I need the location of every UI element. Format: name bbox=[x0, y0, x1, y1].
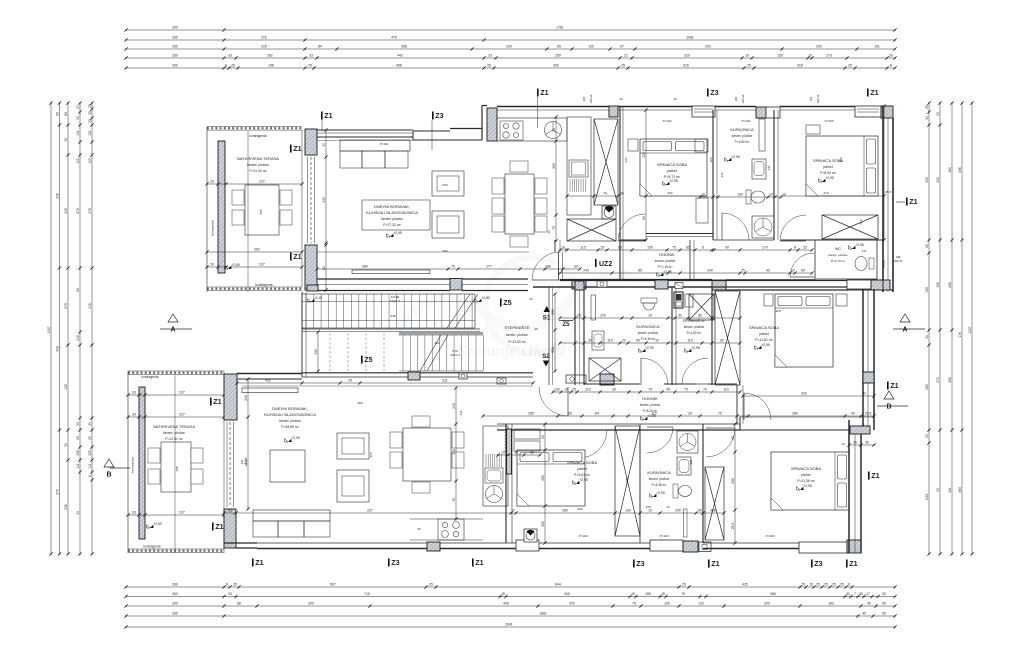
wall segment bbox=[664, 383, 696, 385]
svg-text:Z3: Z3 bbox=[636, 559, 644, 568]
svg-text:20: 20 bbox=[889, 54, 893, 58]
upper terrace right edge thin bbox=[301, 130, 303, 287]
label Z5 stairs top bbox=[500, 299, 502, 307]
cabinet right b1 bbox=[696, 198, 708, 223]
svg-text:keram. pločice: keram. pločice bbox=[163, 431, 185, 435]
label Z1 right side bbox=[906, 198, 908, 206]
svg-text:10: 10 bbox=[655, 339, 659, 343]
svg-text:170: 170 bbox=[762, 246, 768, 250]
pier stair bottom wall bbox=[408, 372, 420, 380]
svg-text:Z5: Z5 bbox=[562, 321, 570, 328]
svg-text:260: 260 bbox=[172, 583, 178, 587]
svg-text:keram. pločice: keram. pločice bbox=[506, 333, 528, 337]
svg-text:+2,95: +2,95 bbox=[669, 179, 678, 183]
svg-text:365: 365 bbox=[770, 592, 776, 596]
svg-text:272: 272 bbox=[936, 377, 940, 383]
svg-text:105: 105 bbox=[647, 246, 653, 250]
wall bath/bedroom2 bbox=[773, 110, 775, 240]
svg-text:300: 300 bbox=[553, 64, 559, 68]
svg-text:50: 50 bbox=[882, 612, 886, 616]
svg-text:SPAVAĆA SOBA: SPAVAĆA SOBA bbox=[657, 162, 687, 167]
svg-text:25: 25 bbox=[88, 436, 92, 440]
svg-text:+2,95: +2,95 bbox=[761, 343, 770, 347]
svg-text:100: 100 bbox=[588, 45, 594, 49]
wall band 450-482 top bbox=[450, 128, 482, 130]
svg-text:240: 240 bbox=[322, 197, 326, 203]
svg-text:318: 318 bbox=[797, 64, 803, 68]
stove 4 burners bbox=[500, 121, 523, 140]
pier top right bedroom4 bbox=[850, 426, 870, 434]
svg-text:45: 45 bbox=[666, 388, 670, 392]
svg-text:36: 36 bbox=[514, 451, 518, 455]
svg-text:10: 10 bbox=[745, 54, 749, 58]
top wall of lower apartment right section bbox=[533, 286, 560, 288]
wall bath/spremiste bbox=[671, 287, 673, 385]
corridor dim rows bbox=[560, 249, 812, 251]
dim row bathroom upper bbox=[700, 196, 781, 198]
nightstand b bbox=[836, 294, 847, 306]
svg-text:+2,95: +2,95 bbox=[691, 346, 700, 350]
svg-text:100: 100 bbox=[936, 282, 940, 288]
svg-text:240: 240 bbox=[240, 459, 244, 464]
upper terrace top contragreda band bbox=[207, 126, 302, 128]
lower plan top wall bbox=[237, 373, 302, 375]
svg-text:Z1: Z1 bbox=[213, 397, 221, 406]
svg-text:WC: WC bbox=[835, 247, 841, 251]
dim row 36 36 bbox=[498, 454, 540, 456]
section marker A left bbox=[168, 314, 178, 322]
vent circle lower kitchen bbox=[486, 486, 503, 503]
right wall upper plan bbox=[882, 106, 884, 292]
top dimension block bbox=[126, 29, 895, 31]
svg-text:70: 70 bbox=[703, 388, 707, 392]
svg-text:82: 82 bbox=[322, 266, 326, 270]
svg-text:25: 25 bbox=[308, 64, 312, 68]
kitchen peninsula crossed box bbox=[567, 219, 616, 241]
pier corridor bottom x572 bbox=[572, 281, 586, 290]
svg-text:P=12,50 m²: P=12,50 m² bbox=[508, 340, 526, 344]
svg-text:295: 295 bbox=[689, 459, 693, 464]
lower plan bottom wall bbox=[224, 542, 257, 544]
svg-text:parket: parket bbox=[823, 165, 832, 169]
watermark logo bbox=[398, 257, 658, 353]
svg-text:358: 358 bbox=[401, 45, 407, 49]
svg-text:100: 100 bbox=[664, 602, 670, 606]
svg-text:+2,95: +2,95 bbox=[731, 155, 740, 159]
section marker B left bbox=[104, 459, 114, 467]
svg-text:10: 10 bbox=[841, 442, 845, 446]
armchairs lower living bbox=[337, 433, 369, 459]
svg-text:260: 260 bbox=[172, 54, 178, 58]
vert dim lower living bbox=[455, 388, 457, 519]
svg-text:260: 260 bbox=[172, 45, 178, 49]
svg-text:177: 177 bbox=[486, 265, 492, 269]
svg-text:Pvv30: Pvv30 bbox=[882, 260, 886, 268]
svg-text:75: 75 bbox=[451, 265, 455, 269]
svg-text:84: 84 bbox=[595, 412, 599, 416]
svg-text:75: 75 bbox=[632, 602, 636, 606]
svg-text:SPAVAĆA SOBA: SPAVAĆA SOBA bbox=[749, 325, 779, 330]
label Z1 top kitchen bbox=[537, 89, 539, 97]
svg-text:40: 40 bbox=[862, 612, 866, 616]
svg-text:198: 198 bbox=[268, 64, 274, 68]
kitchen counter band upper bbox=[497, 118, 567, 141]
label Z1 right lower bbox=[868, 472, 870, 480]
svg-text:295: 295 bbox=[88, 450, 92, 456]
svg-text:25 8: 25 8 bbox=[731, 523, 735, 530]
svg-text:33: 33 bbox=[76, 116, 80, 120]
svg-text:120+20: 120+20 bbox=[589, 94, 593, 103]
vertical dim line through lower terrace bbox=[174, 375, 176, 553]
pier bottom wall upper living bbox=[450, 279, 462, 291]
svg-text:33: 33 bbox=[64, 443, 68, 447]
stove lower kitchen bbox=[438, 519, 464, 540]
vert right wall ticks bbox=[883, 106, 885, 240]
label Z3 top bedroom bbox=[707, 89, 709, 97]
svg-text:85: 85 bbox=[638, 269, 642, 273]
bottom dimension block bbox=[126, 586, 895, 588]
wardrobe crossed bedroom2 bbox=[822, 215, 878, 239]
door arc bedroom4 nook bbox=[706, 428, 735, 457]
svg-text:90: 90 bbox=[417, 527, 421, 531]
svg-text:8: 8 bbox=[794, 246, 796, 250]
nightstand left b1 bbox=[628, 139, 638, 151]
vert dim chain left upper bbox=[325, 130, 327, 290]
sink vent circle bbox=[545, 122, 562, 139]
svg-text:7: 7 bbox=[854, 592, 856, 596]
svg-text:A: A bbox=[170, 327, 175, 334]
svg-text:keram. pločice: keram. pločice bbox=[638, 331, 659, 335]
label Z1 left upper wall bbox=[290, 145, 292, 153]
pier corridor bottom bbox=[712, 280, 726, 290]
svg-text:+2,96: +2,96 bbox=[855, 243, 864, 247]
level +2,89 lower terrace bbox=[150, 525, 153, 528]
label Z1 lower left a bbox=[210, 398, 212, 406]
svg-text:436: 436 bbox=[55, 193, 59, 199]
svg-text:415: 415 bbox=[88, 303, 92, 309]
svg-text:36: 36 bbox=[620, 192, 624, 196]
svg-text:+2,95: +2,95 bbox=[579, 478, 588, 482]
svg-text:Z1: Z1 bbox=[870, 88, 878, 97]
svg-text:Z1: Z1 bbox=[293, 144, 301, 153]
svg-text:33: 33 bbox=[76, 511, 80, 515]
svg-text:273: 273 bbox=[826, 54, 832, 58]
level marker +2,89 upper terrace bbox=[228, 266, 231, 269]
hatch strip bedroom3 left wall bbox=[507, 429, 512, 474]
svg-text:25: 25 bbox=[577, 314, 581, 318]
vert dim 100 stairwell bbox=[317, 332, 319, 371]
svg-text:130: 130 bbox=[737, 193, 743, 197]
svg-text:95: 95 bbox=[642, 216, 646, 220]
corridor 8,20 dim row bbox=[560, 317, 740, 319]
svg-text:SPAVAĆA SOBA: SPAVAĆA SOBA bbox=[791, 466, 821, 471]
svg-text:80: 80 bbox=[801, 269, 805, 273]
svg-text:33: 33 bbox=[309, 54, 313, 58]
svg-text:182: 182 bbox=[267, 54, 273, 58]
svg-text:kontragreda: kontragreda bbox=[211, 220, 215, 236]
svg-text:295: 295 bbox=[76, 450, 80, 456]
dining table upper bbox=[505, 174, 534, 234]
svg-text:keram. pločice: keram. pločice bbox=[828, 253, 848, 257]
svg-text:65: 65 bbox=[557, 45, 561, 49]
svg-text:200: 200 bbox=[569, 602, 575, 606]
svg-text:224: 224 bbox=[434, 341, 439, 345]
svg-text:75: 75 bbox=[741, 269, 745, 273]
svg-text:UZ2: UZ2 bbox=[599, 261, 612, 268]
svg-text:295: 295 bbox=[731, 478, 735, 484]
entry door arc lower apartment bbox=[539, 387, 568, 416]
svg-text:345: 345 bbox=[564, 592, 570, 596]
kitchen lower right bbox=[483, 426, 508, 506]
svg-text:10: 10 bbox=[701, 193, 705, 197]
svg-text:Z3: Z3 bbox=[391, 558, 399, 567]
wall between kitchen and bedroom1 bbox=[619, 106, 621, 280]
svg-text:200: 200 bbox=[816, 45, 822, 49]
svg-text:5: 5 bbox=[702, 246, 704, 250]
svg-text:25 8: 25 8 bbox=[859, 219, 863, 225]
svg-text:+2,95: +2,95 bbox=[803, 484, 812, 488]
sink lower kitchen bbox=[485, 468, 503, 483]
svg-text:1187: 1187 bbox=[47, 326, 51, 333]
svg-text:HODNIK: HODNIK bbox=[659, 252, 675, 257]
label Z1 right mid bbox=[887, 382, 889, 390]
black corner appliance bbox=[602, 206, 616, 219]
counter edge lower bbox=[410, 518, 483, 520]
svg-text:KUHINJA I BLAGOVAONICA: KUHINJA I BLAGOVAONICA bbox=[264, 412, 316, 417]
svg-text:120: 120 bbox=[64, 384, 68, 390]
shelf b2 bbox=[806, 125, 820, 134]
stairwell left wall bbox=[301, 292, 303, 377]
svg-text:75: 75 bbox=[718, 412, 722, 416]
svg-text:650: 650 bbox=[357, 401, 362, 405]
coffee table lower living bbox=[270, 450, 305, 482]
svg-text:33: 33 bbox=[488, 54, 492, 58]
svg-text:25: 25 bbox=[487, 64, 491, 68]
stair mid landing divider bbox=[302, 328, 480, 330]
svg-text:P=4,35 m²: P=4,35 m² bbox=[641, 337, 656, 341]
svg-text:Z1: Z1 bbox=[540, 88, 548, 97]
door arc bedroom3 bbox=[579, 430, 607, 458]
step wall vertical x482 bbox=[481, 106, 483, 141]
kitchen vertical counter bbox=[567, 117, 591, 215]
vert dim right of stairs bbox=[554, 294, 556, 371]
svg-text:10: 10 bbox=[666, 505, 670, 509]
svg-text:25: 25 bbox=[840, 583, 844, 587]
svg-text:8: 8 bbox=[848, 583, 850, 587]
svg-text:270: 270 bbox=[55, 489, 59, 495]
lower terrace wall strip bbox=[139, 387, 145, 539]
small box top wall spremiste bbox=[675, 283, 683, 289]
svg-text:Z1: Z1 bbox=[909, 197, 917, 206]
svg-text:110: 110 bbox=[607, 339, 613, 343]
label Z1 top right bbox=[867, 89, 869, 97]
svg-text:305: 305 bbox=[948, 377, 952, 383]
svg-text:25: 25 bbox=[682, 583, 686, 587]
bed bedroom4 bbox=[771, 452, 849, 510]
wall band bottom 413-482 bbox=[413, 139, 482, 141]
dining table lower bbox=[403, 428, 451, 481]
svg-text:SPREMIŠTE: SPREMIŠTE bbox=[683, 318, 705, 323]
svg-text:25: 25 bbox=[572, 388, 576, 392]
svg-text:Z5: Z5 bbox=[364, 355, 372, 364]
svg-text:442: 442 bbox=[397, 54, 403, 58]
axis stub Z1 kitchen bbox=[537, 97, 539, 128]
bed bedroom 12,81 bbox=[775, 294, 833, 367]
bathroom upper tall cabinet bbox=[759, 119, 765, 151]
bathroom 4,35 toilet bbox=[641, 298, 657, 303]
svg-text:320: 320 bbox=[775, 309, 780, 313]
label Z1 left lower pier bbox=[290, 253, 292, 261]
svg-text:30: 30 bbox=[588, 339, 592, 343]
svg-text:P=100: P=100 bbox=[663, 119, 672, 123]
svg-text:200: 200 bbox=[764, 602, 770, 606]
svg-text:90: 90 bbox=[698, 509, 702, 513]
svg-text:131: 131 bbox=[88, 130, 92, 136]
svg-text:25 8: 25 8 bbox=[865, 412, 872, 416]
svg-text:1081: 1081 bbox=[686, 36, 694, 40]
svg-text:265: 265 bbox=[528, 412, 534, 416]
window dashed lower left bbox=[229, 422, 231, 507]
svg-text:330: 330 bbox=[925, 177, 929, 183]
svg-text:Z1: Z1 bbox=[871, 471, 879, 480]
svg-text:67: 67 bbox=[620, 45, 624, 49]
svg-text:120+20: 120+20 bbox=[894, 259, 903, 263]
door arc bedroom 12,81 bbox=[744, 393, 771, 420]
svg-text:+2,95: +2,95 bbox=[656, 491, 665, 495]
top wall 618-692 bbox=[618, 106, 692, 108]
sofa lower living bbox=[253, 510, 330, 521]
svg-text:33: 33 bbox=[88, 422, 92, 426]
svg-text:B: B bbox=[886, 404, 891, 411]
svg-text:260: 260 bbox=[552, 163, 556, 169]
svg-text:715: 715 bbox=[364, 592, 370, 596]
svg-text:15: 15 bbox=[501, 592, 505, 596]
vert dim bedroom3 bbox=[544, 424, 546, 543]
svg-text:15: 15 bbox=[661, 592, 665, 596]
corner pier lower apt NE bbox=[871, 280, 883, 290]
svg-text:350: 350 bbox=[839, 157, 843, 162]
svg-text:2041: 2041 bbox=[505, 623, 513, 627]
svg-text:110: 110 bbox=[585, 388, 591, 392]
svg-text:25: 25 bbox=[429, 583, 433, 587]
wall pier Z1 top-left upper bbox=[305, 129, 317, 155]
svg-text:+2,95: +2,95 bbox=[645, 346, 654, 350]
bathroom 4,35 shower crossed bbox=[589, 358, 621, 381]
nightstand a bbox=[764, 294, 773, 306]
svg-text:keram. pločice: keram. pločice bbox=[640, 403, 661, 407]
svg-text:25: 25 bbox=[231, 64, 235, 68]
svg-text:P=7,19 m²: P=7,19 m² bbox=[658, 265, 673, 269]
svg-text:200: 200 bbox=[705, 45, 711, 49]
svg-text:360: 360 bbox=[958, 487, 962, 493]
sofa upper living bbox=[340, 140, 410, 151]
svg-text:Z1: Z1 bbox=[890, 381, 898, 390]
svg-text:33: 33 bbox=[132, 511, 136, 515]
spremiste upper crossed shelf bbox=[689, 294, 714, 320]
svg-text:320: 320 bbox=[936, 177, 940, 183]
bath sink square bbox=[592, 331, 604, 350]
svg-text:370: 370 bbox=[64, 303, 68, 309]
spremiste shelf bbox=[685, 294, 693, 307]
corner pier top-right bbox=[881, 106, 893, 118]
svg-text:33: 33 bbox=[88, 119, 92, 123]
right dimension block bbox=[928, 103, 930, 554]
svg-text:230: 230 bbox=[551, 347, 555, 353]
svg-text:900: 900 bbox=[948, 282, 952, 288]
svg-text:60: 60 bbox=[55, 112, 59, 116]
svg-text:250: 250 bbox=[555, 54, 561, 58]
svg-text:170: 170 bbox=[862, 249, 867, 253]
svg-text:120: 120 bbox=[698, 602, 704, 606]
svg-text:90: 90 bbox=[541, 435, 545, 439]
svg-text:227: 227 bbox=[179, 511, 185, 515]
svg-text:405: 405 bbox=[259, 209, 263, 214]
svg-text:keram. pločice: keram. pločice bbox=[649, 477, 670, 481]
svg-text:215: 215 bbox=[261, 36, 267, 40]
svg-text:90: 90 bbox=[766, 269, 770, 273]
svg-text:Z1: Z1 bbox=[293, 252, 301, 261]
lower terrace left edge bbox=[127, 371, 129, 553]
axis stub Z1 left bbox=[321, 118, 323, 131]
svg-text:85: 85 bbox=[618, 246, 622, 250]
svg-text:36: 36 bbox=[865, 441, 869, 445]
bottom wall band upper living bbox=[317, 278, 450, 280]
svg-text:280: 280 bbox=[792, 412, 798, 416]
entry door jamb bbox=[558, 252, 560, 280]
svg-text:33: 33 bbox=[936, 488, 940, 492]
svg-text:330: 330 bbox=[767, 165, 771, 170]
svg-text:95: 95 bbox=[76, 288, 80, 292]
svg-text:215: 215 bbox=[261, 45, 267, 49]
svg-text:120+20: 120+20 bbox=[816, 94, 820, 103]
door arc bathroom upper bbox=[722, 213, 749, 240]
svg-text:Z1: Z1 bbox=[849, 559, 857, 568]
svg-text:198: 198 bbox=[896, 255, 901, 259]
svg-text:25: 25 bbox=[801, 583, 805, 587]
svg-text:110: 110 bbox=[651, 412, 657, 416]
svg-text:80: 80 bbox=[698, 314, 702, 318]
pier Z1 top lower plan bbox=[224, 374, 237, 420]
svg-text:KUPAONICA: KUPAONICA bbox=[636, 324, 660, 329]
svg-text:163: 163 bbox=[828, 602, 834, 606]
svg-text:33: 33 bbox=[859, 592, 863, 596]
pier stair top-left bbox=[307, 285, 318, 291]
bedroom2 bottom line bbox=[781, 195, 883, 197]
svg-text:NATKRIVENA TERASA: NATKRIVENA TERASA bbox=[153, 424, 195, 429]
svg-text:KUHINJA I BLAGOVAONICA: KUHINJA I BLAGOVAONICA bbox=[366, 210, 418, 215]
corner pier bottom right lower plan bbox=[847, 540, 861, 553]
svg-text:260: 260 bbox=[172, 612, 178, 616]
svg-text:40: 40 bbox=[867, 602, 871, 606]
window top bedroom2 bbox=[855, 106, 881, 117]
svg-text:269: 269 bbox=[562, 509, 568, 513]
svg-text:15: 15 bbox=[631, 592, 635, 596]
door arc kitchen opening bbox=[618, 214, 645, 241]
vert dim bedroom4 bbox=[734, 424, 736, 543]
svg-text:33: 33 bbox=[846, 592, 850, 596]
svg-text:101: 101 bbox=[874, 45, 880, 49]
window top bathroom bbox=[766, 107, 780, 118]
svg-text:370: 370 bbox=[76, 208, 80, 214]
svg-text:S1: S1 bbox=[543, 315, 551, 322]
svg-text:kontragreda: kontragreda bbox=[131, 457, 135, 473]
svg-text:150: 150 bbox=[777, 54, 783, 58]
svg-text:17: 17 bbox=[866, 592, 870, 596]
svg-text:131: 131 bbox=[76, 130, 80, 136]
svg-text:340: 340 bbox=[64, 208, 68, 214]
svg-text:110: 110 bbox=[723, 388, 729, 392]
terrace dim row a bbox=[128, 394, 224, 396]
